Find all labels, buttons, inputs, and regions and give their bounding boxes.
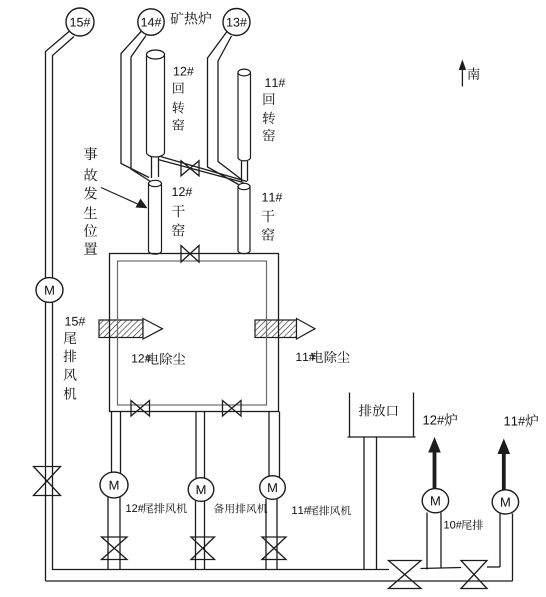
wire 13# duct outer [208, 32, 239, 185]
wire drop pipe middle [196, 412, 205, 481]
valve below fan3 [262, 537, 286, 560]
valve mid right [223, 401, 242, 417]
label 排放口 [359, 404, 398, 416]
wire 12#furnace fan down pipe [427, 513, 441, 570]
wire bottom manifold main [46, 580, 513, 582]
box discharge outlet 排放口 [348, 393, 416, 438]
vessel 11# rotary kiln [238, 69, 251, 161]
wire fan3 down pipe [266, 499, 277, 570]
label ore furnace 矿热炉 [170, 12, 211, 25]
label 12#回转窑 [172, 67, 193, 131]
wire bypass 12#-11# upper [161, 157, 248, 182]
arrow compass south [459, 60, 466, 87]
wire drop pipe left [112, 412, 121, 477]
vessel 12# rotary kiln [147, 50, 165, 157]
wire 15# duct outer [46, 32, 70, 582]
wire 13# duct inner [218, 36, 242, 180]
wire fan1 down pipe [108, 497, 120, 570]
arrow to 11# furnace [498, 439, 511, 490]
vessel 11# dry kiln 干窑 [238, 183, 250, 253]
wire outlet down pipe [364, 437, 377, 570]
stack circle 13# [223, 9, 250, 36]
label 11#干窑 [262, 193, 283, 241]
label 11#炉 [504, 414, 538, 427]
wire 12# kiln neck [152, 157, 159, 178]
valve below fan2 [191, 537, 215, 560]
wire fan2 down pipe [196, 501, 205, 570]
wire 11#furnace fan down pipe [500, 514, 513, 582]
wire 11# kiln neck [242, 161, 248, 182]
label 12#干窑 [172, 187, 192, 236]
valve main B [461, 561, 487, 589]
valve on box top [181, 246, 199, 263]
motor fan 12# tail [100, 472, 128, 498]
motor fan 11# tail [260, 476, 286, 500]
motor fan 15# [36, 278, 63, 303]
label 15#尾排风机 vertical [64, 317, 86, 400]
label 事故发生位置 vertical [84, 147, 97, 254]
vessel 12# dry kiln 干窑 [149, 180, 162, 254]
hatch precipitator 12# arrow [99, 319, 163, 340]
valve on 15# duct [34, 467, 61, 496]
wire 15# duct inner [53, 37, 75, 571]
stack circle 14# [138, 9, 164, 35]
wire bottom manifold upper 3 [487, 566, 500, 568]
wire bypass 12#-11# lower [158, 160, 244, 183]
arrow to 12# furnace [428, 437, 441, 489]
motor fan 11# furnace [492, 490, 518, 514]
motor fan spare [188, 478, 214, 502]
label 10#尾排 [444, 520, 483, 530]
label 12#炉 [423, 413, 457, 426]
wire bottom manifold upper 2 [421, 568, 462, 569]
label 备用排风机 [214, 503, 267, 513]
arrow accident pointer [101, 188, 148, 209]
label 11#尾排风机 [292, 505, 351, 515]
valve mid left [131, 401, 150, 417]
valve bypass [181, 161, 199, 176]
wire drop pipe right [269, 412, 280, 479]
label 南 [468, 67, 480, 79]
stack circle 15# [66, 8, 94, 36]
box precipitator outer [110, 254, 279, 412]
label 11#回转窑 [263, 78, 286, 141]
motor fan 12# furnace [422, 489, 448, 513]
wire 14# duct outer [121, 31, 149, 178]
wire 14# duct inner [131, 36, 151, 182]
hatch precipitator 11# arrow [255, 319, 315, 340]
label 12#电除尘 [132, 353, 185, 365]
valve below fan1 [102, 537, 128, 560]
label 11#电除尘 [296, 351, 349, 363]
wire bottom manifold upper 1 [53, 569, 390, 571]
box precipitator inner [118, 261, 267, 405]
valve main A [389, 561, 422, 589]
label 12#尾排风机 [126, 503, 187, 513]
